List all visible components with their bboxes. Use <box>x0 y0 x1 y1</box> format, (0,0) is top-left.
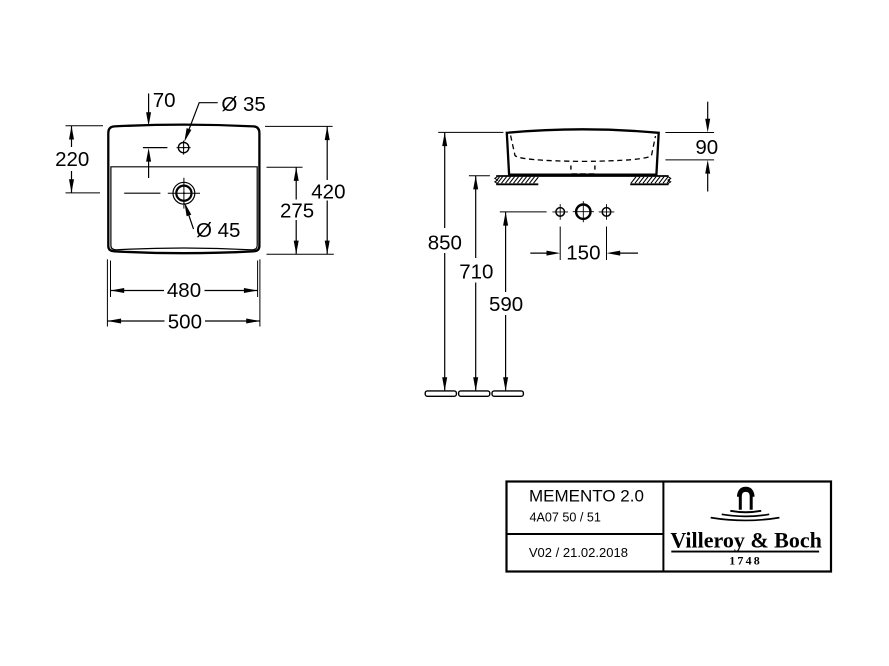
dim 275 arrow up <box>294 167 299 181</box>
dim 90 extension bottom <box>665 159 714 161</box>
dim 220 line lower <box>71 171 73 193</box>
dim 150 arrow left-pointing <box>607 251 621 256</box>
mounting hole left crosshair <box>552 204 568 220</box>
dim 90 arrow up <box>705 160 710 174</box>
basin inner bowl dashed line <box>511 136 656 162</box>
leader arrow dia 45 <box>184 202 191 216</box>
dim 275 extension mid <box>267 166 303 168</box>
floor bar 3 <box>492 391 523 396</box>
dim 150 extension right <box>606 227 608 261</box>
svg-text:420: 420 <box>311 180 345 203</box>
dim 480 extension left <box>110 261 112 298</box>
svg-text:1748: 1748 <box>729 554 762 568</box>
drain hole outer circle (top view) <box>173 182 195 204</box>
drain bottom dashed (side view) <box>572 173 596 175</box>
svg-text:590: 590 <box>489 293 523 316</box>
leader line for dia 35 <box>187 103 218 136</box>
svg-text:Ø 45: Ø 45 <box>196 219 240 242</box>
svg-text:150: 150 <box>566 241 600 264</box>
basin outer outline (top view) <box>108 125 259 254</box>
dim 480 arrow right <box>244 288 258 293</box>
dim 480 line <box>111 290 258 292</box>
logo underline <box>671 551 819 553</box>
dim 500 extension right <box>259 259 261 326</box>
dim 275 line <box>295 167 297 254</box>
dim 710 line <box>475 176 477 391</box>
countertop bar left bottom edge <box>496 183 538 185</box>
leader line for dia 45 <box>187 210 194 230</box>
svg-text:Villeroy & Boch: Villeroy & Boch <box>670 527 822 552</box>
logo arch <box>740 490 751 509</box>
mounting hole center crosshair <box>573 201 594 222</box>
dim 150 extension left <box>559 227 561 261</box>
drain crosshair <box>168 178 200 209</box>
basin inner rim (top view) <box>111 167 257 250</box>
title block texts <box>529 486 644 560</box>
dim 90 upper line <box>707 102 709 119</box>
svg-text:850: 850 <box>428 231 462 254</box>
svg-text:500: 500 <box>168 310 202 333</box>
drain centerline segment <box>124 192 160 194</box>
dim 420 extension top <box>265 125 333 127</box>
countertop hatched bar right <box>631 177 670 183</box>
dim 275 arrow down <box>294 241 299 255</box>
side view dimension labels <box>428 136 719 316</box>
dim 480 extension right <box>257 261 259 298</box>
svg-text:MEMENTO 2.0: MEMENTO 2.0 <box>529 486 644 505</box>
dim 500 arrow left <box>107 319 121 324</box>
dim 70 arrow up <box>146 148 151 162</box>
svg-text:710: 710 <box>459 260 493 283</box>
countertop hatched bar left <box>496 177 538 183</box>
dim 220 extension line bottom <box>66 192 101 194</box>
dim 70 leader line upper <box>148 94 150 115</box>
mounting hole right crosshair <box>599 204 615 220</box>
dim 590 line <box>505 212 507 391</box>
dim 220 arrow up <box>69 126 74 140</box>
dim 220 extension line top <box>66 125 104 127</box>
svg-text:90: 90 <box>695 136 718 159</box>
dim 420 extension bottom <box>267 253 334 255</box>
dim 710 arrow up <box>473 176 478 190</box>
svg-text:480: 480 <box>167 279 201 302</box>
logo arch cap <box>739 489 753 497</box>
dim 220 line upper <box>71 126 73 147</box>
dim 480 arrow left <box>111 288 125 293</box>
dim 590 extension top <box>500 211 547 213</box>
dim 70 lower line <box>148 161 150 179</box>
svg-text:220: 220 <box>55 148 89 171</box>
title block vertical divider <box>662 482 664 572</box>
logo ripple 3 <box>711 518 780 521</box>
mounting hole left (side view) <box>556 208 565 217</box>
dim 420 arrow up <box>325 126 330 140</box>
basin profile outline (side view) <box>507 129 659 174</box>
svg-text:Ø 35: Ø 35 <box>221 93 265 116</box>
dim 70 arrow down <box>146 112 151 126</box>
TITLE BLOCK <box>507 482 832 572</box>
dim 150 arrow right-pointing <box>547 251 561 256</box>
dim 500 arrow right <box>246 319 260 324</box>
floor bar 2 <box>459 391 490 396</box>
svg-text:4A07 50 / 51: 4A07 50 / 51 <box>530 511 601 525</box>
dim 590 arrow up <box>503 212 508 226</box>
dim 150 left tail <box>530 252 547 254</box>
plan view dimension labels <box>55 89 345 334</box>
mounting hole center (side view) <box>576 205 590 219</box>
countertop surface line <box>496 175 668 177</box>
floor bar 1 <box>425 391 456 396</box>
logo ripple 1 <box>730 511 761 512</box>
PLAN VIEW GROUP <box>66 94 334 327</box>
faucet centerline tick <box>143 147 168 149</box>
dim 220 arrow down <box>69 179 74 193</box>
svg-text:V02 / 21.02.2018: V02 / 21.02.2018 <box>529 545 628 560</box>
dim 710 extension top <box>469 175 490 177</box>
countertop bar right bottom edge <box>630 183 668 185</box>
leader arrow dia 35 <box>184 128 191 142</box>
mounting hole right (side view) <box>602 208 611 217</box>
dim 850 arrow up <box>442 132 447 146</box>
svg-text:70: 70 <box>153 89 176 112</box>
dim 710 arrow down <box>473 377 478 391</box>
logo ripple 2 <box>722 514 770 516</box>
dim 850 line <box>444 132 446 391</box>
svg-text:275: 275 <box>280 200 314 223</box>
dim 90 arrow down <box>705 119 710 133</box>
dim 420 arrow down <box>325 241 330 255</box>
dim 850 extension top <box>438 131 503 133</box>
faucet hole crosshair <box>177 141 191 155</box>
Villeroy & Boch logo <box>711 489 780 521</box>
title block outer frame <box>507 482 832 572</box>
dim 420 line <box>326 126 328 254</box>
countertop bar left break mark <box>495 177 498 184</box>
faucet hole (top view) <box>178 142 188 152</box>
dim 850 arrow down <box>442 377 447 391</box>
dim 590 arrow down <box>503 377 508 391</box>
drain marks dashed (side view) <box>571 166 595 170</box>
dim 500 line <box>107 320 260 322</box>
title block horizontal divider <box>507 533 664 535</box>
drain hole inner circle <box>176 186 191 201</box>
SIDE VIEW GROUP <box>425 102 714 397</box>
dim 90 extension top <box>665 132 714 134</box>
dim 150 right tail <box>620 252 638 254</box>
countertop bar right break mark <box>668 177 671 184</box>
dim 500 extension left <box>106 259 108 326</box>
dim 90 lower line <box>707 174 709 192</box>
